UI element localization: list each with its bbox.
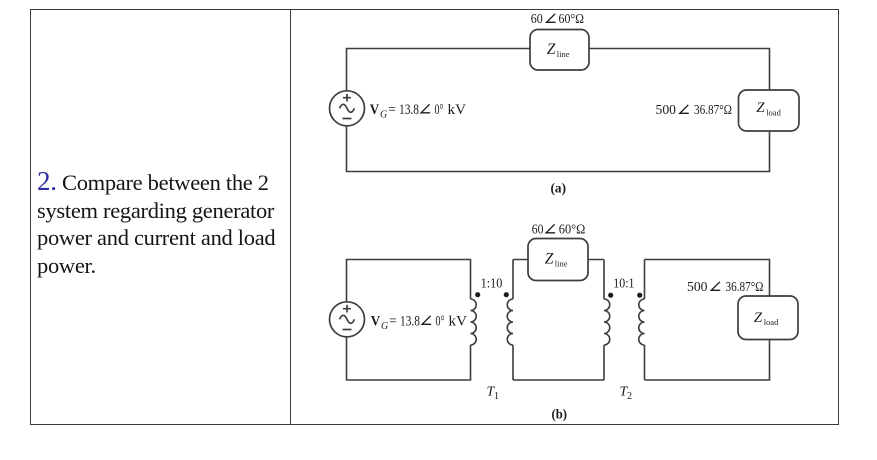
svg-text:Z: Z — [754, 310, 763, 326]
svg-text:0°: 0° — [435, 102, 444, 118]
svg-text:1:10: 1:10 — [481, 276, 503, 291]
svg-text:load: load — [764, 317, 779, 327]
svg-text:Z: Z — [756, 100, 765, 116]
svg-text:load: load — [766, 107, 781, 117]
svg-text:36.87°Ω: 36.87°Ω — [694, 102, 732, 117]
svg-text:36.87°Ω: 36.87°Ω — [726, 279, 764, 294]
svg-text:2: 2 — [627, 391, 632, 402]
svg-text:60°Ω: 60°Ω — [559, 222, 586, 237]
svg-text:0°: 0° — [436, 314, 445, 330]
svg-text:10:1: 10:1 — [613, 276, 634, 291]
svg-text:V: V — [371, 314, 381, 330]
svg-text:13.8: 13.8 — [399, 102, 419, 118]
svg-text:G: G — [381, 321, 388, 332]
svg-text:(b): (b) — [552, 407, 568, 422]
svg-text:line: line — [557, 49, 570, 59]
svg-text:G: G — [380, 110, 387, 121]
svg-text:500: 500 — [656, 102, 677, 117]
svg-text:1: 1 — [494, 391, 499, 402]
svg-text:=: = — [389, 314, 397, 330]
svg-text:60°Ω: 60°Ω — [559, 11, 585, 26]
svg-text:13.8: 13.8 — [400, 314, 420, 330]
svg-text:=: = — [388, 102, 396, 118]
svg-text:(a): (a) — [551, 181, 567, 196]
svg-text:kV: kV — [448, 102, 467, 118]
svg-text:line: line — [555, 259, 568, 269]
svg-text:60: 60 — [531, 11, 543, 26]
svg-text:V: V — [370, 102, 380, 118]
svg-text:kV: kV — [449, 314, 468, 330]
svg-text:Z: Z — [545, 250, 554, 267]
svg-text:Z: Z — [547, 41, 556, 58]
svg-text:500: 500 — [687, 279, 708, 294]
svg-text:60: 60 — [532, 222, 544, 237]
